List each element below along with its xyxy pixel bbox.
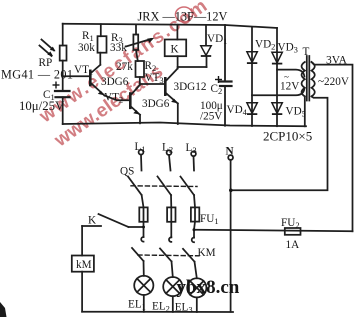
svg-text:QS: QS [120, 166, 134, 178]
svg-text:3VA: 3VA [326, 55, 348, 67]
svg-text:~220V: ~220V [318, 76, 349, 88]
svg-text:MG41 — 201: MG41 — 201 [1, 68, 73, 82]
svg-text:33k: 33k [110, 42, 127, 54]
svg-text:2CP10×5: 2CP10×5 [263, 128, 312, 143]
svg-text:N: N [226, 146, 234, 158]
svg-text:10μ/25V: 10μ/25V [19, 99, 65, 113]
svg-text:3DG12: 3DG12 [174, 81, 207, 93]
svg-text:30k: 30k [78, 42, 95, 54]
svg-text:1A: 1A [286, 239, 300, 251]
svg-text:3DG6: 3DG6 [101, 76, 129, 88]
svg-text:3DG6: 3DG6 [142, 98, 170, 110]
svg-text:/25V: /25V [200, 111, 222, 123]
svg-text:27k: 27k [116, 61, 133, 73]
svg-text:JRX —13F—12V: JRX —13F—12V [138, 10, 228, 24]
svg-text:~: ~ [284, 72, 289, 82]
svg-text:12V: 12V [280, 81, 299, 93]
svg-text:ybx8.cn: ybx8.cn [177, 277, 240, 298]
svg-text:K: K [88, 215, 96, 227]
svg-text:kM: kM [76, 259, 92, 271]
svg-text:K: K [171, 44, 179, 56]
svg-text:T: T [303, 46, 310, 58]
svg-text:KM: KM [198, 247, 216, 259]
